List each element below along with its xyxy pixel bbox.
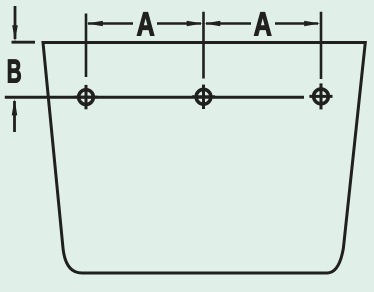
arrowhead A2 left [204, 21, 220, 27]
label B [8, 60, 21, 83]
dimension line A1 left part [88, 22, 133, 25]
extension line right hole [320, 12, 323, 79]
extension line middle hole [202, 12, 205, 79]
hole symbol left [75, 85, 98, 109]
dimension line A2 left part [206, 22, 251, 25]
tank outline [43, 43, 365, 274]
label A1 [137, 12, 154, 35]
arrowhead B up [12, 99, 18, 116]
arrowhead A1 left [87, 21, 103, 27]
extension line left hole [85, 14, 88, 78]
arrowhead A2 right [304, 21, 320, 27]
dimension line A2 right part [275, 22, 318, 25]
label A2 [254, 12, 271, 35]
dimension line B upper arrow shaft [14, 6, 17, 39]
arrowhead B down [12, 25, 18, 42]
hole symbol middle [192, 85, 215, 109]
dimension line B lower arrow shaft [13, 101, 16, 132]
dimension line A1 right part [157, 22, 201, 25]
hole symbol right [309, 83, 332, 109]
centerline [5, 96, 304, 99]
arrowhead A1 right [187, 21, 203, 27]
extension line B top [12, 41, 36, 44]
